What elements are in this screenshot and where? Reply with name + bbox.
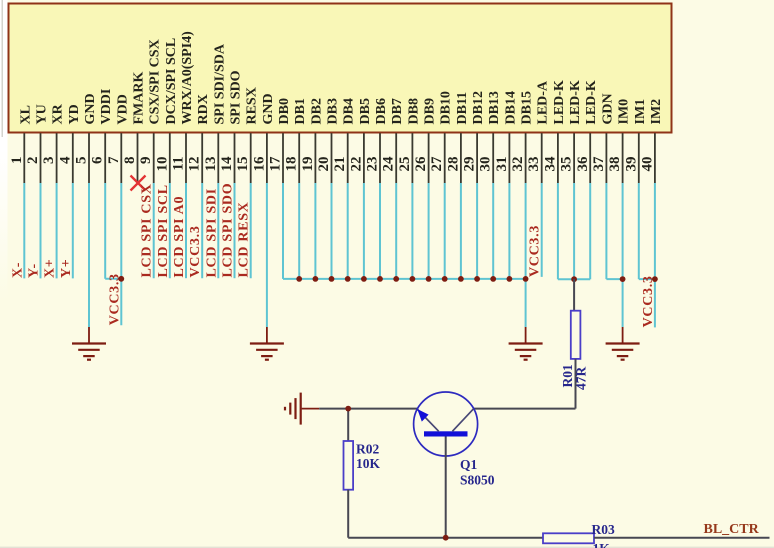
svg-text:Y+: Y+ bbox=[59, 259, 74, 279]
svg-text:XL: XL bbox=[18, 105, 33, 124]
svg-text:1: 1 bbox=[9, 157, 25, 165]
svg-text:31: 31 bbox=[494, 157, 510, 172]
svg-text:16: 16 bbox=[251, 156, 267, 172]
svg-text:DB3: DB3 bbox=[326, 98, 341, 124]
svg-text:3: 3 bbox=[41, 157, 57, 165]
svg-text:VDDI: VDDI bbox=[99, 89, 114, 125]
svg-text:LED-A: LED-A bbox=[536, 80, 551, 124]
svg-text:26: 26 bbox=[413, 156, 429, 172]
svg-text:38: 38 bbox=[607, 157, 623, 172]
svg-text:DB11: DB11 bbox=[455, 92, 470, 125]
svg-text:40: 40 bbox=[639, 157, 655, 172]
svg-text:Y-: Y- bbox=[27, 263, 42, 278]
svg-text:DB6: DB6 bbox=[374, 98, 389, 124]
svg-text:VDD: VDD bbox=[115, 94, 130, 124]
svg-text:BL_CTR: BL_CTR bbox=[704, 522, 760, 537]
svg-text:20: 20 bbox=[316, 157, 332, 172]
svg-text:13: 13 bbox=[203, 157, 219, 172]
svg-text:DB12: DB12 bbox=[471, 91, 486, 124]
svg-text:11: 11 bbox=[171, 157, 187, 171]
svg-text:VCC3.3: VCC3.3 bbox=[107, 273, 122, 325]
svg-text:LCD RESX: LCD RESX bbox=[237, 201, 252, 277]
svg-text:DB15: DB15 bbox=[520, 91, 535, 124]
svg-text:LCD SPI SDI: LCD SPI SDI bbox=[204, 188, 219, 277]
svg-text:37: 37 bbox=[591, 156, 607, 172]
svg-text:33: 33 bbox=[526, 157, 542, 172]
svg-text:XR: XR bbox=[51, 103, 66, 124]
svg-text:DCX/SPI SCL: DCX/SPI SCL bbox=[164, 38, 179, 125]
svg-text:LED-K: LED-K bbox=[584, 80, 599, 124]
svg-text:35: 35 bbox=[559, 157, 575, 172]
svg-text:14: 14 bbox=[219, 156, 235, 172]
svg-text:LCD SPI SDO: LCD SPI SDO bbox=[221, 183, 236, 278]
svg-text:DB4: DB4 bbox=[342, 98, 357, 124]
svg-text:CSX/SPI CSX: CSX/SPI CSX bbox=[148, 39, 163, 124]
svg-text:DB0: DB0 bbox=[277, 98, 292, 124]
svg-text:8: 8 bbox=[122, 157, 138, 165]
svg-text:39: 39 bbox=[623, 157, 639, 172]
svg-text:10K: 10K bbox=[356, 456, 381, 471]
svg-text:DB5: DB5 bbox=[358, 98, 373, 124]
svg-text:34: 34 bbox=[542, 156, 558, 172]
svg-text:VCC3.3: VCC3.3 bbox=[641, 275, 656, 327]
svg-text:10: 10 bbox=[154, 157, 170, 172]
svg-text:19: 19 bbox=[300, 157, 316, 172]
svg-text:GND: GND bbox=[83, 93, 98, 124]
svg-text:LCD SPI SCL: LCD SPI SCL bbox=[156, 184, 171, 277]
svg-text:9: 9 bbox=[138, 157, 154, 165]
svg-text:WRX/A0(SPI4): WRX/A0(SPI4) bbox=[180, 31, 195, 125]
svg-text:IM2: IM2 bbox=[649, 99, 664, 125]
svg-text:FMARK: FMARK bbox=[132, 72, 147, 125]
svg-text:VCC3.3: VCC3.3 bbox=[188, 225, 203, 277]
svg-text:22: 22 bbox=[348, 157, 364, 172]
svg-text:24: 24 bbox=[381, 156, 397, 172]
svg-text:DB14: DB14 bbox=[503, 91, 518, 124]
svg-text:DB9: DB9 bbox=[423, 98, 438, 124]
svg-text:RESX: RESX bbox=[245, 87, 260, 124]
svg-text:X+: X+ bbox=[43, 259, 58, 279]
svg-text:18: 18 bbox=[284, 157, 300, 172]
svg-text:30: 30 bbox=[478, 157, 494, 172]
svg-text:R02: R02 bbox=[356, 442, 379, 457]
svg-text:27: 27 bbox=[429, 156, 445, 172]
svg-text:6: 6 bbox=[90, 156, 106, 164]
svg-text:23: 23 bbox=[365, 157, 381, 172]
svg-text:12: 12 bbox=[187, 157, 203, 172]
svg-text:21: 21 bbox=[332, 157, 348, 172]
svg-text:DB10: DB10 bbox=[439, 91, 454, 124]
svg-text:5: 5 bbox=[74, 157, 90, 165]
svg-text:7: 7 bbox=[106, 156, 122, 164]
svg-text:DB13: DB13 bbox=[487, 91, 502, 124]
svg-text:R03: R03 bbox=[592, 522, 615, 537]
svg-text:LED-K: LED-K bbox=[552, 80, 567, 124]
svg-text:S8050: S8050 bbox=[460, 473, 495, 488]
svg-text:LED-K: LED-K bbox=[568, 80, 583, 124]
svg-text:DB8: DB8 bbox=[406, 98, 421, 124]
svg-text:36: 36 bbox=[575, 156, 591, 172]
svg-text:17: 17 bbox=[268, 156, 284, 172]
svg-text:29: 29 bbox=[462, 157, 478, 172]
svg-text:RDX: RDX bbox=[196, 94, 211, 124]
svg-text:47R: 47R bbox=[574, 367, 589, 391]
svg-text:SPI SDI/SDA: SPI SDI/SDA bbox=[212, 43, 227, 124]
svg-text:GDN: GDN bbox=[600, 93, 615, 124]
svg-text:LCD SPI CSX: LCD SPI CSX bbox=[140, 183, 155, 277]
svg-text:15: 15 bbox=[235, 157, 251, 172]
svg-text:DB2: DB2 bbox=[309, 98, 324, 124]
svg-text:LCD SPI A0: LCD SPI A0 bbox=[172, 196, 187, 278]
svg-text:Q1: Q1 bbox=[460, 457, 478, 472]
svg-text:GND: GND bbox=[261, 93, 276, 124]
svg-text:DB7: DB7 bbox=[390, 98, 405, 124]
svg-text:4: 4 bbox=[57, 156, 73, 164]
svg-text:28: 28 bbox=[445, 157, 461, 172]
svg-text:DB1: DB1 bbox=[293, 98, 308, 124]
svg-text:IM0: IM0 bbox=[617, 99, 632, 125]
svg-text:YD: YD bbox=[67, 104, 82, 124]
svg-text:32: 32 bbox=[510, 157, 526, 172]
svg-text:2: 2 bbox=[25, 157, 41, 165]
svg-text:25: 25 bbox=[397, 157, 413, 172]
svg-text:SPI SDO: SPI SDO bbox=[229, 70, 244, 124]
svg-text:YU: YU bbox=[35, 104, 50, 124]
svg-text:X-: X- bbox=[10, 262, 25, 278]
svg-text:IM1: IM1 bbox=[633, 99, 648, 125]
svg-text:VCC3.3: VCC3.3 bbox=[528, 225, 543, 277]
svg-text:1K: 1K bbox=[593, 541, 611, 548]
